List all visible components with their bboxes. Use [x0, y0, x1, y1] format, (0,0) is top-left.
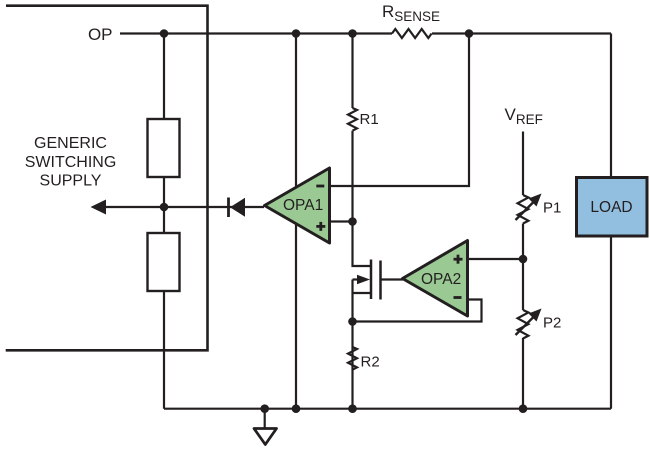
wire: vertical at x=296: [295, 34, 297, 409]
MOSFET Q1 arrowhead: [357, 275, 370, 285]
ground stub: [264, 409, 266, 428]
svg-text:P1: P1: [543, 200, 561, 217]
LOAD box: [577, 178, 648, 237]
OPA2 minus sign: [454, 296, 462, 299]
diode D1: [230, 198, 245, 217]
wire: divider middle lower: [163, 207, 165, 233]
wire: bottom ground rail: [164, 408, 611, 410]
svg-text:R1: R1: [360, 111, 379, 128]
junction node: x296 top: [292, 29, 301, 38]
junction node: feedback: [348, 317, 357, 326]
wire: feedback output line with arrow: [103, 206, 264, 208]
resistor R2 zigzag: [348, 347, 357, 370]
MOSFET Q1 source branch: [351, 280, 353, 409]
svg-text:SUPPLY: SUPPLY: [40, 173, 102, 190]
junction node: pots bottom: [519, 404, 528, 413]
OPA1 plus sign: [316, 225, 325, 228]
op-amp OPA2: [403, 241, 468, 317]
wire: supply divider top: [163, 34, 165, 120]
junction node: R_SENSE right: [465, 29, 474, 38]
wire: VREF drop to P1: [522, 132, 524, 196]
svg-text:LOAD: LOAD: [590, 199, 632, 216]
OPA2 plus sign: [454, 258, 463, 261]
junction node: OPA1 plus: [348, 217, 357, 226]
wire: OPA2 plus input to pots: [468, 258, 524, 260]
svg-text:P2: P2: [543, 315, 561, 332]
resistor R1 zigzag: [348, 108, 357, 131]
svg-text:OPA2: OPA2: [421, 271, 461, 288]
junction node: P1-P2: [519, 255, 528, 264]
wire: OPA1 plus input line: [330, 220, 353, 222]
MOSFET Q1 arrow stub: [353, 278, 359, 280]
MOSFET Q1 gate bar: [379, 261, 382, 300]
resistor R_SENSE zigzag: [392, 29, 432, 38]
svg-text:GENERIC: GENERIC: [34, 135, 107, 152]
svg-text:OP: OP: [88, 25, 113, 44]
svg-text:OPA1: OPA1: [283, 197, 323, 214]
ground symbol: [254, 429, 277, 445]
junction node: x352 top: [348, 29, 357, 38]
wire: OPA2 minus feedback loop: [353, 300, 482, 322]
junction node: x296 bottom: [292, 404, 301, 413]
wire: vertical x=352.5 R1 to drain corner: [353, 131, 371, 266]
junction node: OP-divider: [160, 29, 169, 38]
MOSFET Q1 source stub: [353, 292, 371, 294]
wire: top rail right of R_SENSE: [432, 32, 611, 34]
resistor (upper divider box): [148, 119, 180, 177]
potentiometer P2 zigzag: [518, 310, 529, 338]
wire: LOAD bottom drop: [610, 236, 612, 409]
potentiometer P2 wiper arrow: [516, 317, 535, 336]
junction node: R2 bottom: [348, 404, 357, 413]
wire: vertical x=352.5 top to R1: [351, 34, 353, 109]
wire: right drop to LOAD: [610, 34, 612, 178]
junction node: divider mid: [160, 203, 169, 212]
potentiometer P1 zigzag: [518, 195, 529, 224]
svg-text:R2: R2: [361, 353, 380, 370]
arrowhead output left: [91, 200, 107, 215]
resistor (lower divider box): [148, 233, 180, 291]
wire: divider middle upper: [163, 177, 165, 207]
wire: P2 to rail: [522, 338, 524, 409]
op-amp OPA1: [265, 168, 330, 243]
wire: OPA1 minus input line: [330, 34, 470, 187]
wire: divider bottom to rail: [163, 291, 165, 409]
OPA1 minus sign: [316, 185, 324, 188]
wire: P1 to junction: [522, 224, 524, 311]
generic switching supply box: [6, 6, 208, 351]
svg-text:SWITCHING: SWITCHING: [25, 154, 117, 171]
junction node: ground tap: [260, 404, 269, 413]
wire: gate to OPA2: [382, 278, 404, 280]
diode D1 cathode bar: [227, 198, 230, 218]
wire: OP top rail: [120, 32, 392, 34]
potentiometer P1 wiper arrow: [516, 202, 535, 221]
MOSFET Q1 channel bar: [370, 260, 373, 300]
